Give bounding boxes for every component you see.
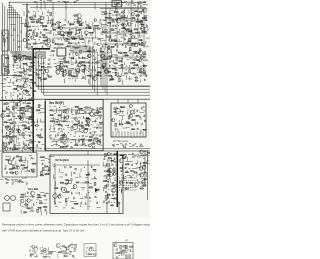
wire [95,32,97,35]
value label [139,69,141,71]
wire [40,119,42,122]
wire [138,173,142,175]
resistor [122,107,125,108]
node [13,141,14,142]
node tap 8 [130,2,132,9]
wire [121,119,123,124]
value label [23,162,26,164]
resistor [61,44,63,45]
wire [86,61,90,63]
inductor [80,50,82,53]
resistor [23,110,26,112]
inductor [64,57,66,60]
capacitor [50,21,52,23]
resistor [85,124,88,125]
wire [18,40,22,42]
resistor [89,253,92,254]
wire [128,10,130,13]
resistor [81,39,83,40]
resistor [66,179,68,180]
resistor [23,55,26,56]
wire corner [8,12,18,51]
value label [33,38,36,40]
wire [60,61,62,66]
wire [61,110,63,115]
value label [44,66,47,68]
resistor [56,44,59,45]
resistor [71,244,73,245]
resistor [88,75,91,76]
value label [95,191,98,193]
wire [38,112,41,114]
value label [46,39,48,41]
resistor [142,31,145,32]
wire [76,65,80,67]
value label [29,71,31,73]
transistor Q1 [60,31,64,35]
transistor [89,248,92,251]
resistor [58,252,61,253]
wire [58,201,61,203]
wire [114,177,116,181]
pin [118,132,120,138]
wire [118,120,120,125]
inductor [20,157,22,160]
value label [53,166,55,168]
node [36,256,37,257]
transistor [74,117,77,120]
value label [109,13,112,15]
wire [52,109,100,111]
value label [70,251,72,253]
value label [82,75,84,77]
value label [70,145,72,147]
value label [10,111,12,113]
node [147,157,148,158]
capacitor [75,112,77,114]
wire [41,195,46,197]
wire corner [102,52,104,89]
wire [102,99,104,151]
node [114,21,115,22]
value label [142,44,145,46]
value label [112,182,115,184]
wire [117,129,119,133]
transistor [140,27,144,31]
wire [109,178,111,183]
wire [120,53,124,55]
wire [75,140,77,143]
node [13,95,14,96]
transistor [65,109,69,113]
inductor [115,72,117,75]
wire [84,143,86,146]
value label [70,178,72,180]
transistor [134,43,138,47]
wire [19,121,24,123]
wire [126,127,129,129]
resistor [14,75,17,76]
wire [48,38,50,41]
resistor [28,69,31,71]
value label [61,172,63,174]
inductor [141,42,143,45]
wire [93,126,99,128]
wire [25,157,27,161]
value label [6,181,9,183]
value label [107,164,109,166]
capacitor [44,194,46,196]
resistor [65,32,68,33]
wire [1,114,3,117]
transistor Q2 [68,31,72,35]
wire [140,129,142,134]
wire [94,35,96,38]
value label [123,51,126,53]
capacitor [89,106,91,108]
wire [137,69,141,71]
node [115,180,116,181]
wire [59,169,61,173]
capacitor [69,29,71,31]
wire [13,84,18,86]
value label [9,128,11,130]
value label [85,135,88,137]
wire [20,62,22,66]
value label [144,15,147,17]
resistor [139,11,141,12]
wire [79,68,81,72]
value label [124,166,127,168]
wire [88,23,90,26]
pin [139,132,141,138]
value label [40,253,43,255]
transistor Q7 [86,118,90,122]
transformer T1 [57,48,66,56]
value label [28,47,31,49]
value label [9,118,12,120]
resistor [36,125,39,127]
value label [43,42,46,44]
resistor [75,106,78,107]
node [22,98,23,99]
capacitor [28,122,30,124]
resistor [41,175,44,176]
node [124,15,125,16]
transistor [17,166,20,169]
resistor [105,17,107,18]
wire [54,198,56,203]
transistor [107,153,110,156]
inductor [145,17,147,20]
value label [110,153,112,155]
resistor [45,173,48,174]
node [89,57,90,58]
inductor [37,20,39,23]
transistor [119,159,123,163]
value label [140,4,142,6]
capacitor [36,246,38,248]
wire [91,69,93,72]
value label [41,202,43,204]
wire [146,37,150,39]
resistor [114,154,117,155]
value label [16,164,19,166]
value label [40,148,42,150]
resistor [27,208,30,209]
transistor [66,247,69,250]
capacitor [68,21,70,23]
detail box A7 [113,243,133,259]
wire [9,101,12,103]
value label [142,58,144,60]
resistor [44,256,47,257]
value label [143,4,146,6]
node [111,202,112,203]
wire [61,24,65,26]
node [13,109,14,110]
value label [115,128,118,130]
capacitor [131,164,133,166]
capacitor [137,64,139,66]
wire [136,60,140,62]
inductor [36,33,38,36]
transistor [65,249,69,253]
capacitor [91,110,93,112]
resistor [128,41,131,42]
wire [99,19,101,24]
wire [101,23,103,28]
svg-text:A7: A7 [125,239,129,243]
wire [34,15,36,19]
resistor [119,124,122,125]
value label [22,167,24,169]
value label [128,3,130,5]
value label [58,1,60,3]
resistor [21,197,24,198]
pin [142,132,144,138]
capacitor [141,107,143,109]
inductor [94,182,96,185]
wire [49,257,51,259]
resistor [64,66,67,67]
wire right edge [147,150,149,200]
wire [128,76,130,80]
wire [41,211,43,215]
value label [143,56,145,58]
value label [7,33,9,35]
resistor [65,61,67,62]
value label [40,63,42,65]
transistor [24,71,28,75]
resistor [108,174,110,175]
transistor Q4 [23,90,27,94]
wire [94,65,96,69]
wire [130,72,136,74]
value label [59,193,61,195]
value label [131,20,134,22]
wire [123,55,129,57]
inductor [128,38,130,41]
node [63,129,64,130]
wire [116,9,118,48]
wire [14,179,18,181]
wire [122,157,126,159]
wire [60,115,62,119]
value label [87,55,89,57]
resistor [18,116,20,118]
capacitor [13,156,15,158]
wire [20,67,24,69]
capacitor [144,170,146,172]
wire [102,187,104,191]
inductor [82,141,84,144]
wire [109,167,111,171]
resistor [118,76,121,77]
value label [105,44,108,46]
resistor [44,29,47,30]
wire corner [15,51,17,60]
resistor [53,24,56,25]
value label [135,1,138,3]
wire [25,102,29,104]
value label [65,247,67,249]
resistor [114,185,117,187]
transistor [90,112,94,116]
wire [71,28,74,30]
wire [118,39,120,42]
node [71,127,72,128]
wire section divider [0,150,150,152]
inductor [33,32,35,35]
capacitor [26,14,28,16]
resistor [127,123,130,124]
wire [5,143,7,147]
transistor Q10 [106,163,110,167]
value label [145,4,147,6]
wire [5,155,9,157]
wire [138,31,140,35]
value label [58,132,60,134]
capacitor [146,75,148,77]
capacitor [8,143,10,145]
resistor [94,254,96,255]
capacitor [25,144,27,146]
resistor [20,72,22,73]
value label [63,57,66,59]
capacitor [94,176,96,178]
transistor [94,112,98,116]
wire [21,94,23,99]
value label [112,143,115,145]
transistor [112,119,115,122]
resistor [38,194,40,196]
capacitor [43,72,45,74]
resistor [5,66,8,67]
resistor [111,46,114,47]
capacitor [71,192,73,194]
transistor [85,31,89,35]
wire [75,29,77,32]
capacitor [16,88,18,90]
inductor [13,165,15,168]
inductor [128,29,130,32]
value label [89,200,91,202]
resistor [29,30,31,31]
wire [141,181,145,183]
node [79,72,80,73]
resistor [13,56,16,57]
capacitor [81,121,83,123]
wire [138,51,140,54]
capacitor [32,119,34,121]
pin [115,132,117,138]
value label [17,78,20,80]
transistor [12,128,15,131]
wire [78,138,84,140]
value label [122,144,124,146]
value label [140,54,142,56]
transistor Q5 [105,70,109,74]
value label [137,58,140,60]
resistor [75,47,78,48]
wire [101,13,106,15]
value label [74,248,77,250]
wire [109,41,113,43]
transistor [63,110,67,114]
value label [135,143,137,145]
value label [106,68,108,70]
wire [112,30,115,32]
node [141,13,142,14]
resistor [131,170,133,171]
wire [38,48,40,51]
wire [93,58,96,60]
wire [49,156,54,158]
value label [54,66,57,68]
wire [9,164,13,166]
capacitor [78,140,80,142]
node [13,40,14,41]
wire [1,139,3,142]
wire [23,121,27,123]
value label [113,2,115,4]
capacitor [88,61,90,63]
capacitor [56,121,58,123]
value label [128,160,130,162]
wire [25,111,30,113]
capacitor [83,126,85,128]
wire [71,138,76,140]
resistor [24,167,27,168]
inductor [129,48,131,51]
value label [101,61,103,63]
transistor [131,13,134,16]
transistor [20,117,23,120]
capacitor [40,31,42,33]
wire [84,71,86,75]
transistor [43,248,47,252]
wire [28,91,30,95]
wire [23,70,27,72]
value label [15,135,17,137]
value label [7,64,9,66]
resistor [112,185,114,186]
value label [15,118,17,120]
wire [51,118,56,120]
resistor [90,247,92,248]
resistor [31,22,34,23]
